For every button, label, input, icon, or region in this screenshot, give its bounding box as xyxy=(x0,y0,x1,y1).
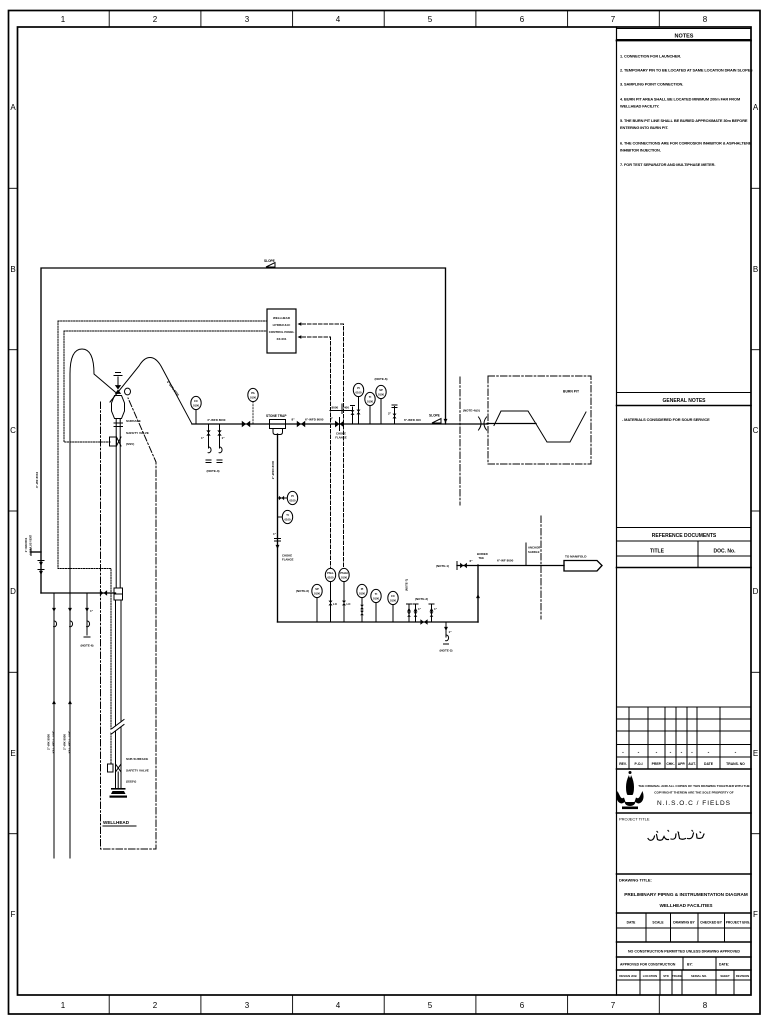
svg-text:PROJECT TITLE: PROJECT TITLE xyxy=(619,817,650,822)
svg-text:-: - xyxy=(681,750,683,756)
svg-text:TRANS. NO: TRANS. NO xyxy=(726,762,745,766)
svg-text:-: - xyxy=(670,750,672,756)
svg-text:PI: PI xyxy=(357,386,360,390)
svg-text:SHEET: SHEET xyxy=(720,974,730,978)
casing head spools xyxy=(114,588,123,594)
svg-text:DOC. No.: DOC. No. xyxy=(714,549,737,555)
svg-text:0100: 0100 xyxy=(193,403,199,407)
svg-text:DATE: DATE xyxy=(627,921,637,925)
svg-text:-: - xyxy=(622,750,624,756)
svg-text:6": 6" xyxy=(470,559,474,563)
svg-text:TI: TI xyxy=(286,513,289,517)
svg-text:1": 1" xyxy=(449,630,453,634)
svg-text:2"-WK 8000: 2"-WK 8000 xyxy=(47,734,51,750)
svg-text:5: 5 xyxy=(428,15,433,24)
svg-text:4: 4 xyxy=(336,15,341,24)
svg-text:LO: LO xyxy=(347,602,352,606)
buried line break symbol xyxy=(479,417,487,430)
flowline arch A xyxy=(70,349,117,593)
svg-text:8000: 8000 xyxy=(332,406,339,410)
svg-text:SAFETY VALVE: SAFETY VALVE xyxy=(126,431,149,435)
svg-text:APPROVED FOR CONSTRUCTION: APPROVED FOR CONSTRUCTION xyxy=(620,963,676,967)
svg-text:-: - xyxy=(708,750,710,756)
svg-text:AUT.: AUT. xyxy=(688,762,696,766)
TI bubble xyxy=(375,603,377,623)
2in vent with cap xyxy=(394,407,396,425)
bore break symbol xyxy=(112,722,124,731)
svg-text:2"-WFD 8000: 2"-WFD 8000 xyxy=(271,460,275,479)
svg-text:1": 1" xyxy=(273,532,277,536)
hydraulic line to SSV xyxy=(64,331,110,442)
svg-text:KILL WELL LINE: KILL WELL LINE xyxy=(68,731,72,754)
reference documents table xyxy=(617,528,752,568)
svg-text:TEE: TEE xyxy=(479,556,485,560)
svg-text:HYDRAULIC: HYDRAULIC xyxy=(273,323,291,327)
svg-text:D: D xyxy=(753,587,759,596)
svg-text:(NOTE-6): (NOTE-6) xyxy=(296,589,309,593)
well tubing xyxy=(115,419,117,589)
svg-text:6: 6 xyxy=(520,1001,525,1010)
svg-text:P-O-I: P-O-I xyxy=(634,762,642,766)
svg-text:-: - xyxy=(735,750,737,756)
svg-text:0100: 0100 xyxy=(341,575,347,579)
svg-text:0100: 0100 xyxy=(373,596,379,600)
svg-text:APP.: APP. xyxy=(678,762,686,766)
svg-text:TRADE: TRADE xyxy=(672,974,682,978)
svg-text:PSHH: PSHH xyxy=(340,571,348,575)
svg-text:6"-WFD 400: 6"-WFD 400 xyxy=(404,418,421,422)
svg-text:PA: PA xyxy=(251,391,255,395)
arabic project name (stylised) xyxy=(648,831,704,841)
svg-text:TO MANIFOLD: TO MANIFOLD xyxy=(565,555,587,559)
svg-text:FLANGE: FLANGE xyxy=(335,436,347,440)
svg-text:0100: 0100 xyxy=(250,395,256,399)
svg-text:(NOTE-6): (NOTE-6) xyxy=(81,644,94,648)
svg-text:B: B xyxy=(753,265,758,274)
svg-text:0100: 0100 xyxy=(314,591,320,595)
svg-text:(NOTE-3): (NOTE-3) xyxy=(415,597,428,601)
svg-text:0100: 0100 xyxy=(378,392,384,396)
burn pit ground profile xyxy=(494,411,586,442)
svg-text:0100: 0100 xyxy=(359,591,365,595)
instrument PI bubble upstream xyxy=(252,402,254,425)
svg-text:0100: 0100 xyxy=(356,390,362,394)
svg-text:SADDLE: SADDLE xyxy=(528,550,540,554)
svg-text:E: E xyxy=(753,749,758,758)
small vent at choke xyxy=(352,407,354,424)
svg-text:2. TEMPORARY PIN TO BE LOCATED: 2. TEMPORARY PIN TO BE LOCATED AT SAME L… xyxy=(620,68,753,73)
svg-text:SP: SP xyxy=(315,587,319,591)
wire: test header xyxy=(278,621,479,623)
svg-text:PREP.: PREP. xyxy=(652,762,662,766)
svg-text:1": 1" xyxy=(90,609,94,613)
sample point 2 (note-3) xyxy=(219,424,221,446)
svg-text:4"-WF 8002: 4"-WF 8002 xyxy=(35,472,39,489)
svg-text:LOCATION: LOCATION xyxy=(643,974,657,978)
svg-text:FLANGE: FLANGE xyxy=(282,558,294,562)
svg-text:3: 3 xyxy=(245,1001,250,1010)
svg-text:C: C xyxy=(753,426,759,435)
svg-text:PROJECT ENG.: PROJECT ENG. xyxy=(726,921,751,925)
svg-text:TITLE: TITLE xyxy=(650,549,665,555)
wellhead hydraulic control panel xyxy=(267,309,296,353)
svg-text:6. THE CONNECTIONS ARE FOR COR: 6. THE CONNECTIONS ARE FOR CORROSION INH… xyxy=(620,141,752,146)
svg-text:COPYRIGHT THEREIN ARE THE SOLE: COPYRIGHT THEREIN ARE THE SOLE PROPERTY … xyxy=(654,791,734,795)
svg-text:2"-WK 8000: 2"-WK 8000 xyxy=(63,734,67,750)
svg-text:6: 6 xyxy=(520,15,525,24)
general notes box xyxy=(617,393,752,406)
instrument CC bubble xyxy=(195,410,197,425)
vent pair note-7 xyxy=(408,605,410,622)
header gate valve xyxy=(420,619,427,625)
svg-text:8: 8 xyxy=(703,15,708,24)
svg-text:6"-WF 8000: 6"-WF 8000 xyxy=(497,559,514,563)
svg-text:0100: 0100 xyxy=(390,598,396,602)
check valve pair on riser xyxy=(39,562,43,566)
arrow into flowline at burn pit junction xyxy=(444,419,448,423)
svg-text:WELLHEAD FACILITIES: WELLHEAD FACILITIES xyxy=(659,903,712,908)
SP bubble xyxy=(316,598,318,623)
svg-text:2: 2 xyxy=(153,15,158,24)
test choke flange xyxy=(275,538,281,540)
svg-text:ANCHOR: ANCHOR xyxy=(528,546,540,550)
svg-text:CONTROL PANEL: CONTROL PANEL xyxy=(269,330,295,334)
svg-text:PI: PI xyxy=(291,494,294,498)
svg-text:1: 1 xyxy=(61,1001,66,1010)
svg-text:0100: 0100 xyxy=(328,575,334,579)
christmas tree body xyxy=(112,396,125,419)
burn pit pipe xyxy=(487,423,536,425)
svg-text:3. SAMPLING POINT CONNECTION.: 3. SAMPLING POINT CONNECTION. xyxy=(620,82,683,87)
CC bubble xyxy=(392,605,394,623)
svg-text:5: 5 xyxy=(428,1001,433,1010)
svg-text:N.I.S.O.C / FIELDS: N.I.S.O.C / FIELDS xyxy=(657,800,731,807)
svg-text:(NOTE-6): (NOTE-6) xyxy=(375,377,388,381)
svg-text:(NOTE-3): (NOTE-3) xyxy=(207,469,220,473)
wire: line to manifold xyxy=(457,565,564,567)
kill well line 1 xyxy=(53,593,55,858)
kill well line 2 xyxy=(69,593,71,858)
svg-text:0100: 0100 xyxy=(290,498,296,502)
revision table xyxy=(617,707,752,769)
svg-text:5. THE BURN PIT LINE SHALL BE: 5. THE BURN PIT LINE SHALL BE BURIED APP… xyxy=(620,118,748,123)
svg-text:DRAWING BY: DRAWING BY xyxy=(673,921,695,925)
svg-text:INHIBITOR INJECTION.: INHIBITOR INJECTION. xyxy=(620,148,661,153)
svg-text:KILL WELL LINE: KILL WELL LINE xyxy=(52,731,56,754)
svg-text:1": 1" xyxy=(434,607,438,611)
riser to buried tee xyxy=(477,565,479,622)
svg-text:3: 3 xyxy=(245,15,250,24)
svg-text:(SSV): (SSV) xyxy=(126,442,134,446)
svg-text:NO CONSTRUCTION PERMITTED UNLE: NO CONSTRUCTION PERMITTED UNLESS DRAWING… xyxy=(628,950,740,954)
svg-text:PI: PI xyxy=(361,587,364,591)
svg-text:(NOTE-7): (NOTE-7) xyxy=(405,579,409,591)
svg-text:SCALE: SCALE xyxy=(652,921,664,925)
svg-text:NOTES: NOTES xyxy=(675,34,694,40)
svg-text:DATE: DATE xyxy=(704,762,714,766)
svg-text:SUB SURFACE: SUB SURFACE xyxy=(126,757,148,761)
svg-text:7: 7 xyxy=(611,15,616,24)
anchor saddle xyxy=(525,543,527,566)
svg-text:WELLHEAD: WELLHEAD xyxy=(273,316,291,320)
svg-text:PRELIMINARY PIPING & INSTRUMEN: PRELIMINARY PIPING & INSTRUMENTATION DIA… xyxy=(624,892,748,897)
svg-text:(NOTE-2): (NOTE-2) xyxy=(440,649,453,653)
svg-text:1": 1" xyxy=(222,436,226,440)
wing gate valve xyxy=(242,421,250,427)
svg-text:REV.: REV. xyxy=(619,762,627,766)
svg-text:BY:: BY: xyxy=(687,963,693,967)
svg-text:D: D xyxy=(10,587,16,596)
svg-text:(SSSV): (SSSV) xyxy=(126,780,136,784)
svg-text:CC: CC xyxy=(391,594,395,598)
svg-text:REVISION: REVISION xyxy=(736,974,749,978)
svg-text:A: A xyxy=(10,103,16,112)
svg-text:- MATERIALS CONSIDERED FOR SO: - MATERIALS CONSIDERED FOR SOUR SERVICE xyxy=(622,417,710,422)
svg-text:STD: STD xyxy=(663,974,669,978)
svg-text:SLOPE: SLOPE xyxy=(429,414,440,418)
notes box header xyxy=(617,29,752,41)
injection point note-6 xyxy=(86,593,88,635)
svg-text:PSLL: PSLL xyxy=(327,571,334,575)
title block panel divider xyxy=(616,27,618,995)
svg-text:F: F xyxy=(11,910,16,919)
svg-text:2"-WN 8002: 2"-WN 8002 xyxy=(24,537,28,552)
svg-text:8: 8 xyxy=(703,1001,708,1010)
svg-text:SAFETY VALVE: SAFETY VALVE xyxy=(126,769,149,773)
svg-text:SURFACE: SURFACE xyxy=(126,419,141,423)
PSHH bubble xyxy=(343,582,345,623)
fence line xyxy=(540,516,542,619)
PSLL bubble xyxy=(330,582,332,623)
svg-text:LO: LO xyxy=(333,602,338,606)
svg-text:4: 4 xyxy=(336,1001,341,1010)
company property block with logo xyxy=(617,768,752,770)
svg-text:CHK.: CHK. xyxy=(666,762,674,766)
svg-text:DRAWING TITLE:: DRAWING TITLE: xyxy=(619,878,652,883)
svg-text:1": 1" xyxy=(418,607,422,611)
wire: flare header top loop xyxy=(41,268,446,593)
svg-text:0100: 0100 xyxy=(367,399,373,403)
svg-text:1: 1 xyxy=(61,15,66,24)
svg-text:2": 2" xyxy=(388,412,392,416)
svg-text:4"-WFL 8000: 4"-WFL 8000 xyxy=(166,380,180,397)
svg-text:DATE:: DATE: xyxy=(719,963,729,967)
svg-text:SERIAL NO.: SERIAL NO. xyxy=(691,974,707,978)
svg-text:8": 8" xyxy=(292,418,296,422)
svg-text:1": 1" xyxy=(201,436,205,440)
well bore xyxy=(115,600,117,788)
svg-text:THE ORIGINAL AND ALL COPIES OF: THE ORIGINAL AND ALL COPIES OF THIS DRAW… xyxy=(638,784,750,788)
svg-text:-: - xyxy=(638,750,640,756)
svg-text:ANNULUS VENT: ANNULUS VENT xyxy=(29,534,33,555)
hydraulic line to SSSV xyxy=(58,321,111,764)
SSSV xyxy=(108,764,114,772)
wellhead battery limit box xyxy=(101,398,157,849)
svg-text:7. FOR TEST SEPARATOR AND MULT: 7. FOR TEST SEPARATOR AND MULTIPHASE MET… xyxy=(620,162,715,167)
notes text xyxy=(620,54,753,168)
signature table xyxy=(617,913,752,942)
bore termination xyxy=(117,772,119,788)
svg-text:1. CONNECTION FOR LAUNCHER.: 1. CONNECTION FOR LAUNCHER. xyxy=(620,54,681,59)
valve on kill header xyxy=(100,590,107,596)
svg-text:400: 400 xyxy=(344,406,349,410)
flowline arch B with label xyxy=(110,358,192,425)
svg-text:BURN PIT: BURN PIT xyxy=(563,390,580,394)
svg-text:B: B xyxy=(10,265,15,274)
svg-text:A: A xyxy=(753,103,759,112)
svg-text:7: 7 xyxy=(611,1001,616,1010)
svg-text:-: - xyxy=(656,750,658,756)
svg-text:STONE TRAP: STONE TRAP xyxy=(266,414,287,418)
vent note-3 xyxy=(431,605,433,622)
svg-text:TI: TI xyxy=(369,395,372,399)
svg-text:C: C xyxy=(10,426,16,435)
svg-text:TI: TI xyxy=(375,592,378,596)
svg-text:CC: CC xyxy=(194,399,198,403)
downstream gauges PI TI SP xyxy=(358,397,360,425)
svg-text:6"-WFD 8000: 6"-WFD 8000 xyxy=(305,418,324,422)
svg-text:WELLHEAD: WELLHEAD xyxy=(103,820,130,825)
PI bubble xyxy=(361,598,363,623)
wellhead gauge xyxy=(125,388,131,395)
annulus stub with blind xyxy=(31,551,41,553)
crown valve xyxy=(117,377,119,385)
svg-text:4"-WFD 8000: 4"-WFD 8000 xyxy=(207,418,226,422)
wire: main flowline xyxy=(192,423,487,425)
svg-text:(NOTE-4&5): (NOTE-4&5) xyxy=(463,409,480,413)
svg-text:GENERAL NOTES: GENERAL NOTES xyxy=(663,398,707,404)
stone trap xyxy=(270,420,286,429)
wire: kill line header xyxy=(41,592,116,594)
battery limit tick note-4,5 xyxy=(459,377,461,505)
tubing flanges xyxy=(114,422,123,424)
TI on test line xyxy=(278,516,283,518)
svg-text:F: F xyxy=(753,910,758,919)
burn pit enclosure xyxy=(488,376,591,464)
drain note-2 xyxy=(445,622,447,637)
svg-text:SP: SP xyxy=(379,388,383,392)
svg-text:REFERENCE DOCUMENTS: REFERENCE DOCUMENTS xyxy=(652,533,717,539)
signal dashed lines to panel xyxy=(302,324,344,568)
svg-text:CHECKED BY: CHECKED BY xyxy=(700,921,723,925)
svg-text:0100: 0100 xyxy=(285,517,291,521)
svg-text:-: - xyxy=(691,750,693,756)
wire: test line drop xyxy=(277,434,279,622)
svg-text:(NOTE-1): (NOTE-1) xyxy=(436,564,449,568)
svg-text:E: E xyxy=(10,749,15,758)
sample point 1 (note-3) xyxy=(208,424,210,446)
svg-text:XX-001: XX-001 xyxy=(276,337,286,341)
svg-text:2: 2 xyxy=(153,1001,158,1010)
svg-text:4. BURN PIT AREA SHALL BE LOCA: 4. BURN PIT AREA SHALL BE LOCATED MINIMU… xyxy=(620,97,740,102)
svg-text:WELLHEAD FACILITY.: WELLHEAD FACILITY. xyxy=(620,104,659,109)
svg-text:SLOPE: SLOPE xyxy=(264,259,275,263)
SSV valve on tubing xyxy=(110,437,117,446)
PI on test line xyxy=(278,497,288,499)
svg-text:ENTERING INTO BURN PIT.: ENTERING INTO BURN PIT. xyxy=(620,125,668,130)
svg-text:DESIGN JOB: DESIGN JOB xyxy=(619,974,636,978)
